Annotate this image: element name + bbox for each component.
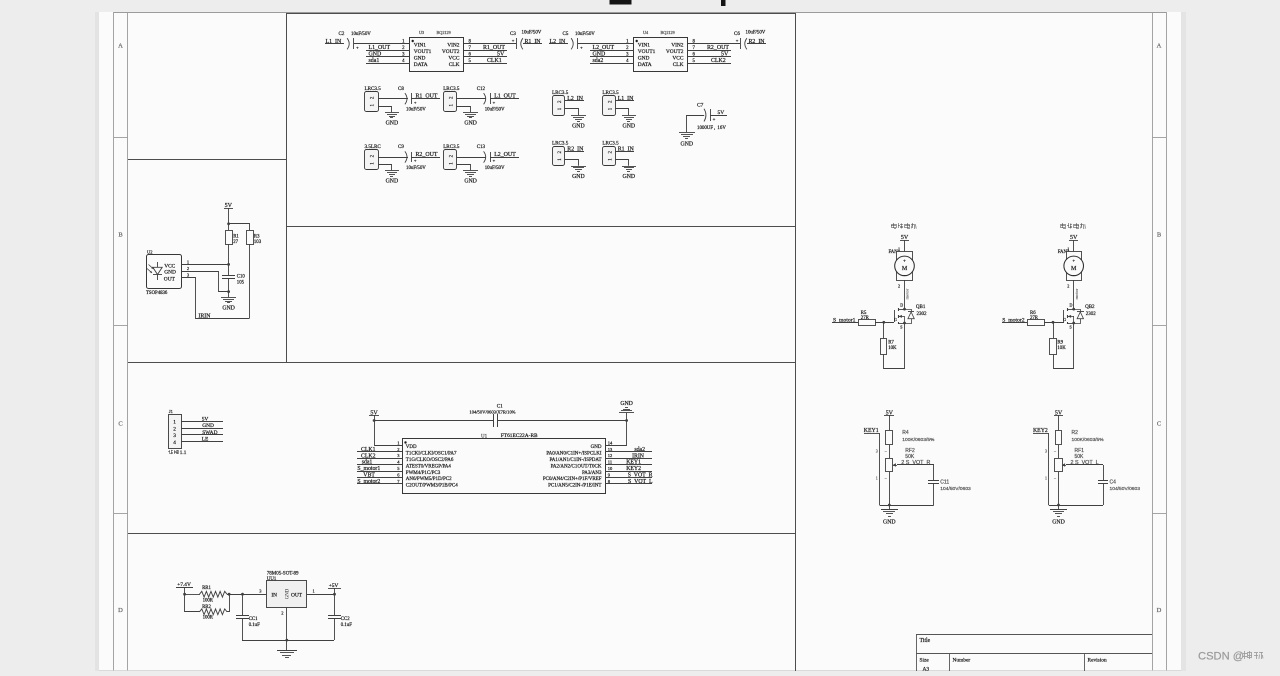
page left shadow xyxy=(95,12,99,671)
svg-text:GND: GND xyxy=(638,56,650,62)
IC U3 BQ2129 xyxy=(402,30,471,72)
svg-text:VIN1: VIN1 xyxy=(638,43,651,49)
net label KEY1 xyxy=(864,428,880,505)
svg-text:GND: GND xyxy=(623,124,636,130)
svg-text:U3: U3 xyxy=(419,30,424,35)
svg-text:motor: motor xyxy=(905,288,910,299)
wire pin2 to C8 xyxy=(378,98,408,100)
junction xyxy=(227,222,230,225)
junction xyxy=(333,593,336,596)
svg-text:S: S xyxy=(1070,324,1072,329)
svg-text:2302: 2302 xyxy=(1086,312,1097,317)
junction xyxy=(227,263,230,266)
junction xyxy=(285,639,288,642)
ground xyxy=(571,167,586,181)
net label R2_IN xyxy=(565,147,584,153)
svg-text:S_motor2: S_motor2 xyxy=(357,479,380,485)
wire ground rail xyxy=(242,640,334,642)
svg-text:1: 1 xyxy=(397,440,399,445)
capacitor C2 xyxy=(339,32,372,50)
svg-text:LRC3.5: LRC3.5 xyxy=(602,141,619,147)
zone tick marks xyxy=(114,138,1166,514)
svg-text:PC1/AN5/C2IN-/P1E/INT: PC1/AN5/C2IN-/P1E/INT xyxy=(548,484,601,489)
svg-text:C9: C9 xyxy=(398,145,404,150)
svg-text:27R: 27R xyxy=(861,316,870,321)
wire 5V rail xyxy=(374,420,494,422)
svg-text:104/50V/0603: 104/50V/0603 xyxy=(1110,486,1141,492)
svg-text:+: + xyxy=(713,118,716,123)
net label 2 S_VOT_R xyxy=(897,460,934,466)
capacitor C11 xyxy=(928,465,971,505)
net label R1_IN xyxy=(523,39,542,45)
title block xyxy=(916,635,1152,673)
right section divider xyxy=(795,13,797,671)
svg-text:VCC: VCC xyxy=(164,263,175,269)
svg-text:C8: C8 xyxy=(398,87,404,92)
ground xyxy=(385,113,399,127)
capacitor C13 xyxy=(477,145,505,171)
svg-text:D: D xyxy=(1070,303,1073,308)
net label KEY2 xyxy=(605,466,652,472)
resistor R2 100K xyxy=(1056,430,1105,444)
svg-text:CLK: CLK xyxy=(673,62,684,68)
net label L2_OUT xyxy=(590,45,634,51)
svg-text:PA3/AN3: PA3/AN3 xyxy=(582,471,602,476)
connector LRC3.5 xyxy=(443,144,460,169)
net label GND xyxy=(366,52,410,58)
svg-text:100R: 100R xyxy=(203,616,214,621)
net label CLK1 xyxy=(464,58,507,64)
svg-text:14: 14 xyxy=(608,440,613,445)
power label 5V xyxy=(1069,235,1078,252)
ground xyxy=(385,171,399,185)
svg-text:C2: C2 xyxy=(339,32,345,37)
svg-text:FT61EC22A-RB: FT61EC22A-RB xyxy=(501,433,538,439)
potentiometer RF1 50K xyxy=(1045,445,1084,480)
svg-text:C2OUT/PWM3/P1B/PC4: C2OUT/PWM3/P1B/PC4 xyxy=(406,484,458,489)
wire pin1 to ground xyxy=(565,109,579,116)
net label 5V xyxy=(181,416,223,422)
svg-text:RR1: RR1 xyxy=(202,586,211,591)
svg-text:Size: Size xyxy=(920,658,930,664)
zone letters right xyxy=(1157,43,1162,615)
wire OUT to IRIN xyxy=(181,278,249,319)
net label L1_IN xyxy=(615,96,634,102)
svg-text:2: 2 xyxy=(1067,283,1069,288)
svg-text:IRIN: IRIN xyxy=(198,313,211,319)
net label S_VOT_L xyxy=(605,479,653,485)
svg-text:D: D xyxy=(900,303,903,308)
svg-text:M: M xyxy=(902,266,908,272)
svg-text:10K: 10K xyxy=(888,346,897,351)
svg-text:GND: GND xyxy=(222,305,235,311)
IC U4 BQ2129 xyxy=(626,30,695,72)
transistor QB1 2302 xyxy=(894,303,927,330)
wire motor to drain xyxy=(1073,280,1075,309)
svg-text:10uF/50V: 10uF/50V xyxy=(485,166,505,171)
net label CLK2 xyxy=(688,58,731,64)
svg-text:1: 1 xyxy=(898,247,900,252)
svg-text:GND: GND xyxy=(681,142,694,148)
svg-text:LRC3.5: LRC3.5 xyxy=(443,86,460,92)
resistor R5 27R xyxy=(859,311,895,326)
power label 5V xyxy=(1054,410,1063,431)
svg-text:1: 1 xyxy=(1045,475,1047,480)
motor FAN1 xyxy=(889,247,915,289)
capacitor C10 105 xyxy=(222,264,245,292)
power label 5V xyxy=(224,203,233,224)
svg-text:VIN1: VIN1 xyxy=(414,43,427,49)
ground xyxy=(277,640,297,658)
resistor R7 10K xyxy=(881,322,897,355)
page right shadow xyxy=(1181,12,1186,671)
cropped heading mark 1 xyxy=(610,0,632,5)
net label S_motor2 xyxy=(1002,317,1027,323)
ground xyxy=(622,167,636,181)
svg-text:T1CKI/CLKI/OSC1/PA7: T1CKI/CLKI/OSC1/PA7 xyxy=(406,452,457,457)
wire motor to drain xyxy=(904,280,906,309)
wire pin2 to C13 xyxy=(457,157,486,159)
svg-text:sda2: sda2 xyxy=(634,447,645,453)
svg-text:DATA: DATA xyxy=(414,62,428,68)
net label CLK1 xyxy=(357,447,402,453)
connector LRC3.5 R1_IN xyxy=(602,141,619,166)
svg-text:VOUT1: VOUT1 xyxy=(638,49,656,55)
junction xyxy=(1072,322,1075,325)
svg-text:GND: GND xyxy=(164,270,176,276)
svg-text:2302: 2302 xyxy=(917,312,928,317)
svg-text:27: 27 xyxy=(233,240,238,245)
net label SWAD xyxy=(181,430,223,436)
svg-text:GND: GND xyxy=(883,520,896,526)
svg-text:10uF/50V: 10uF/50V xyxy=(522,31,542,36)
svg-text:GND: GND xyxy=(623,174,636,180)
svg-text:CC1: CC1 xyxy=(249,617,258,622)
svg-text:R3: R3 xyxy=(254,234,260,239)
wire ground rail xyxy=(1049,505,1103,507)
svg-text:GND: GND xyxy=(591,445,602,450)
capacitor C1 xyxy=(469,405,515,427)
junction xyxy=(1072,308,1075,311)
svg-text:104/50V/0603: 104/50V/0603 xyxy=(940,486,971,492)
net label L2_IN xyxy=(565,96,584,102)
wire pin1 to ground xyxy=(457,165,471,171)
wire GND pin xyxy=(181,272,228,292)
svg-text:GND: GND xyxy=(464,120,477,126)
svg-text:VOUT2: VOUT2 xyxy=(442,49,460,55)
resistor R6 27R xyxy=(1028,311,1065,326)
wire VDD xyxy=(375,421,403,446)
svg-text:RF1: RF1 xyxy=(1075,448,1085,454)
svg-text:VOUT2: VOUT2 xyxy=(666,49,684,55)
svg-text:S_VOT_L: S_VOT_L xyxy=(628,479,653,485)
svg-text:10uF/50V: 10uF/50V xyxy=(485,108,505,113)
svg-text:+: + xyxy=(512,38,515,43)
wire C2 to pin1 xyxy=(354,43,410,45)
svg-text:GND: GND xyxy=(414,56,426,62)
junction xyxy=(882,321,885,324)
net label 5V xyxy=(688,52,731,58)
ground xyxy=(622,116,636,130)
svg-text:A: A xyxy=(118,43,123,50)
ground xyxy=(463,171,478,185)
svg-text:LRC3.5: LRC3.5 xyxy=(365,86,382,92)
svg-text:GND: GND xyxy=(572,124,585,130)
wire pin1 to ground xyxy=(457,107,471,113)
svg-text:C3: C3 xyxy=(510,32,516,37)
svg-text:VOUT1: VOUT1 xyxy=(414,49,432,55)
svg-text:+: + xyxy=(493,158,496,163)
svg-text:TSOP4836: TSOP4836 xyxy=(146,291,168,296)
svg-text:+: + xyxy=(414,100,417,105)
wire pin2 to C12 xyxy=(457,98,486,100)
mcu section box xyxy=(128,533,795,535)
svg-text:+: + xyxy=(356,45,359,50)
junction xyxy=(625,419,628,422)
svg-text:3: 3 xyxy=(1045,448,1047,453)
capacitor C5 xyxy=(563,32,596,50)
svg-text:10uF/50V: 10uF/50V xyxy=(406,108,426,113)
potentiometer RF2 50K xyxy=(876,445,915,480)
resistor RR2 100R xyxy=(185,594,230,621)
net label L1_OUT xyxy=(366,45,410,51)
svg-text:+: + xyxy=(903,259,906,264)
power label 5V xyxy=(369,410,379,420)
svg-text:R7: R7 xyxy=(888,341,894,346)
net label R1_OUT xyxy=(411,94,440,100)
junction xyxy=(888,504,891,507)
svg-text:1: 1 xyxy=(313,588,315,593)
ground xyxy=(679,133,695,148)
svg-text:1.1: 1.1 xyxy=(180,450,187,456)
connector LRC3.5 L2_IN xyxy=(552,90,569,116)
svg-text:10K: 10K xyxy=(1057,346,1066,351)
svg-text:Number: Number xyxy=(953,658,971,664)
svg-text:100K/0603/5%: 100K/0603/5% xyxy=(902,437,935,443)
power label +7.4V xyxy=(176,582,193,594)
svg-text:27R: 27R xyxy=(1030,316,1039,321)
svg-text:+: + xyxy=(736,38,739,43)
wire source to resistor xyxy=(1054,323,1074,369)
capacitor C4 xyxy=(1098,465,1140,505)
ground xyxy=(463,113,478,127)
net label L1_OUT xyxy=(490,94,519,100)
connector 3.5LRC xyxy=(365,144,382,169)
svg-text:CLK1: CLK1 xyxy=(361,447,376,453)
power label +5V xyxy=(328,583,341,594)
label 电推电机 xyxy=(1061,223,1086,229)
wire pin8 to C3 xyxy=(464,43,516,45)
svg-text:1: 1 xyxy=(187,259,189,264)
svg-text:78M05-SOT-89: 78M05-SOT-89 xyxy=(267,572,299,577)
svg-text:GND: GND xyxy=(620,401,633,407)
ground xyxy=(221,292,236,311)
wire source to resistor xyxy=(884,323,905,369)
net label GND xyxy=(181,423,223,429)
junction xyxy=(227,290,230,293)
wire pin1 to ground xyxy=(615,109,628,116)
capacitor C6 xyxy=(734,31,766,50)
svg-text:10uF/50V: 10uF/50V xyxy=(406,166,426,171)
page bottom edge line xyxy=(99,670,1181,672)
net label KEY2 xyxy=(1033,428,1049,505)
wire pot bottom xyxy=(1058,472,1060,505)
junction xyxy=(373,419,376,422)
svg-text:QB1: QB1 xyxy=(916,305,926,310)
svg-text:D: D xyxy=(1157,607,1162,614)
capacitor CC2 0.1uF xyxy=(328,594,352,640)
resistor R1 27 xyxy=(226,224,240,245)
svg-text:2: 2 xyxy=(187,266,189,271)
svg-text:CSDN @: CSDN @ xyxy=(1198,651,1244,663)
wire ground rail xyxy=(880,505,934,507)
net label KEY1 xyxy=(605,460,652,466)
ground xyxy=(1050,505,1067,526)
cropped heading mark 2 xyxy=(721,0,726,6)
svg-text:+: + xyxy=(493,100,496,105)
capacitor C9 xyxy=(398,145,426,171)
svg-text:D: D xyxy=(118,607,123,614)
svg-text:+: + xyxy=(414,158,417,163)
svg-text:VIN2: VIN2 xyxy=(671,43,684,49)
svg-text:R2: R2 xyxy=(1072,430,1079,436)
svg-text:PA2/AN2/C1OUT/T0CK: PA2/AN2/C1OUT/T0CK xyxy=(551,464,602,469)
audio section box xyxy=(287,14,796,227)
net label S_VOT_R xyxy=(605,473,653,479)
wire pin2 to C9 xyxy=(378,157,408,159)
svg-text:Revision: Revision xyxy=(1088,658,1107,664)
svg-text:R9: R9 xyxy=(1057,341,1063,346)
ground GND up xyxy=(619,401,634,420)
svg-text:1000UF , 16V: 1000UF , 16V xyxy=(697,126,726,131)
svg-text:GND: GND xyxy=(386,179,399,185)
capacitor C12 xyxy=(477,87,505,113)
resistor R4 100K xyxy=(886,430,936,444)
svg-text:1: 1 xyxy=(173,420,176,426)
svg-text:1: 1 xyxy=(876,475,878,480)
svg-text:OUT: OUT xyxy=(291,592,303,598)
svg-text:QB2: QB2 xyxy=(1085,305,1095,310)
net label S_motor1 xyxy=(832,317,858,323)
svg-text:J1: J1 xyxy=(169,409,173,414)
net label sda2 xyxy=(590,58,634,64)
MCU U1 FT61EC22A-RB xyxy=(397,433,613,493)
svg-text:+: + xyxy=(1072,259,1075,264)
svg-text:1: 1 xyxy=(1067,247,1069,252)
svg-text:RF2: RF2 xyxy=(905,448,915,454)
wire VCC xyxy=(181,264,229,266)
svg-text:C10: C10 xyxy=(237,274,246,279)
svg-text:104/50V/0603/X7R/10%: 104/50V/0603/X7R/10% xyxy=(469,410,515,415)
svg-text:DATA: DATA xyxy=(638,62,652,68)
capacitor C7 xyxy=(687,103,728,133)
connector LRC3.5 xyxy=(443,86,460,112)
transistor QB2 2302 xyxy=(1063,303,1096,330)
svg-text:5V: 5V xyxy=(718,110,725,116)
svg-text:L2_IN: L2_IN xyxy=(567,96,583,102)
svg-text:3: 3 xyxy=(876,448,878,453)
net label IRIN xyxy=(605,453,652,459)
ir section box xyxy=(128,13,795,363)
capacitor CC1 0.1uF xyxy=(236,594,260,640)
svg-text:2: 2 xyxy=(281,611,283,616)
wire to R3 xyxy=(229,224,250,231)
svg-text:AN6/PWM5/P1D/PC2: AN6/PWM5/P1D/PC2 xyxy=(406,477,452,482)
wire R1 to VCC xyxy=(228,244,230,264)
net label S_motor1 xyxy=(357,466,402,472)
ground xyxy=(571,116,586,130)
watermark CSDN xyxy=(1198,651,1263,663)
svg-text:C4: C4 xyxy=(1110,479,1117,485)
svg-text:C7: C7 xyxy=(697,103,704,109)
resistor R3 103 xyxy=(247,231,262,246)
svg-text:B: B xyxy=(118,232,123,239)
svg-text:PWM4/P1C/PC3: PWM4/P1C/PC3 xyxy=(406,471,441,476)
svg-text:3: 3 xyxy=(173,433,176,439)
svg-text:Title: Title xyxy=(920,638,931,644)
svg-text:GND: GND xyxy=(572,174,585,180)
wire pin1 to ground xyxy=(615,160,628,166)
svg-text:R4: R4 xyxy=(902,430,909,436)
svg-text:GND: GND xyxy=(286,588,291,599)
svg-text:PA0/AN0/C1IN+/ISPCLKI: PA0/AN0/C1IN+/ISPCLKI xyxy=(546,452,601,457)
net label sda1 xyxy=(366,58,410,64)
net label 2 S_VOT_L xyxy=(1066,460,1103,466)
svg-text:G: G xyxy=(1063,317,1066,322)
svg-text:BQ2129: BQ2129 xyxy=(437,30,451,35)
svg-text:U1: U1 xyxy=(481,434,488,439)
svg-text:LRC3.5: LRC3.5 xyxy=(552,141,569,147)
svg-text:IN: IN xyxy=(271,592,277,598)
IR receiver U2 TSOP4836 xyxy=(146,249,182,295)
wire pot bottom xyxy=(889,472,891,505)
power label 5V xyxy=(884,410,894,431)
svg-text:0.1uF: 0.1uF xyxy=(249,623,260,628)
junction xyxy=(183,593,186,596)
zone letters left xyxy=(118,43,123,615)
net label L2_IN xyxy=(549,39,568,45)
junction xyxy=(903,308,906,311)
svg-text:2: 2 xyxy=(173,426,176,432)
svg-text:VCC: VCC xyxy=(672,56,683,62)
net label L2_OUT xyxy=(490,152,519,158)
svg-text:2: 2 xyxy=(898,283,900,288)
junction xyxy=(903,322,906,325)
svg-text:VIN2: VIN2 xyxy=(447,43,460,49)
svg-text:C11: C11 xyxy=(940,479,949,485)
svg-text:-: - xyxy=(904,273,906,279)
net label R2_OUT xyxy=(688,45,731,51)
svg-text:+: + xyxy=(580,45,583,50)
svg-text:CLK: CLK xyxy=(449,62,460,68)
connector J1 xyxy=(168,409,187,456)
svg-text:RR2: RR2 xyxy=(202,605,211,610)
svg-text:C13: C13 xyxy=(477,145,486,150)
svg-text:M: M xyxy=(1071,266,1077,272)
net label R2_IN xyxy=(747,39,766,45)
svg-text:GND: GND xyxy=(1052,520,1065,526)
wire pin8 to C6 xyxy=(688,43,740,45)
wire C1 to GND rail xyxy=(498,420,627,422)
wire GND pin14 xyxy=(605,421,626,446)
pin numbers U2 xyxy=(187,259,190,277)
svg-text:C: C xyxy=(1157,421,1161,428)
svg-text:-: - xyxy=(1073,273,1075,279)
svg-text:R1: R1 xyxy=(233,234,239,239)
net label VBT xyxy=(357,473,402,479)
svg-text:SWAD: SWAD xyxy=(202,430,217,436)
svg-text:VDD: VDD xyxy=(406,445,417,450)
